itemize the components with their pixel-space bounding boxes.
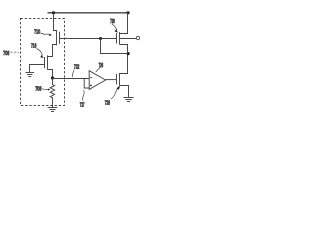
transistor Q730 gate bar: [116, 33, 118, 44]
resistor R708: [50, 79, 54, 108]
node A junction dot (top left): [52, 11, 55, 14]
svg-text:716: 716: [31, 44, 36, 50]
ground (716 gate): [26, 73, 35, 77]
transistor Q728 gate bar: [116, 74, 118, 85]
wire: rail to transistor 710 drain: [54, 13, 57, 31]
leader 708: [42, 88, 48, 91]
node D junction dot: [127, 52, 130, 55]
leader 728: [111, 88, 118, 99]
node B junction dot (top right): [126, 11, 129, 14]
wire: 716 source stub down to node E: [48, 70, 53, 79]
transistor Q716 gate bar: [44, 57, 46, 68]
node E junction dot: [51, 76, 54, 79]
transistor Q730 channel bar: [119, 32, 121, 45]
wire: gate bus 710 to 730 (node 722): [60, 38, 117, 40]
dashed box 706: [21, 19, 65, 106]
svg-text:708: 708: [35, 86, 41, 92]
output terminal circle: [136, 36, 139, 39]
leader 727: [83, 90, 84, 101]
wire: output line from 730: [120, 38, 137, 40]
op-amp minus marker: [90, 76, 92, 78]
wire: 710 source stub down to 716 drain: [48, 45, 57, 57]
wire: 730 source stub down to node D: [120, 45, 128, 54]
leader 722: [72, 70, 74, 78]
ground (below resistor 708): [48, 108, 58, 112]
wire: 730 drain stub up to rail: [120, 13, 128, 34]
wire: 716 gate lead to ground: [30, 65, 45, 73]
op-amp plus marker: [90, 84, 92, 86]
leader 706 (dashed): [11, 52, 19, 53]
wire: 728 drain stub up to node D: [120, 54, 128, 74]
svg-text:727: 727: [80, 103, 85, 109]
wire: VDD top rail: [48, 12, 129, 14]
transistor Q710 gate bar: [59, 32, 61, 44]
op-amp U726 triangle: [89, 71, 105, 90]
wire: 728 source to ground: [120, 86, 129, 98]
svg-text:722: 722: [74, 65, 79, 71]
ground (728 source): [124, 98, 134, 102]
transistor Q710 channel bar: [56, 30, 58, 45]
wire: branch to op-amp + input: [84, 79, 89, 89]
transistor Q716 channel bar: [47, 55, 49, 69]
svg-text:728: 728: [105, 100, 110, 106]
svg-text:710: 710: [34, 29, 40, 35]
svg-text:706: 706: [3, 51, 9, 57]
leader 726: [96, 68, 100, 73]
wire: feedback from node C down and right to node D: [101, 39, 128, 54]
leader 710: [41, 33, 51, 35]
wire: op-amp output to 728 gate: [105, 79, 116, 81]
wire: node E to op-amp inputs: [53, 78, 90, 80]
leader 716: [37, 49, 43, 56]
node C junction dot: [99, 37, 102, 40]
leader 730: [112, 24, 117, 30]
transistor Q728 channel bar: [119, 73, 121, 86]
